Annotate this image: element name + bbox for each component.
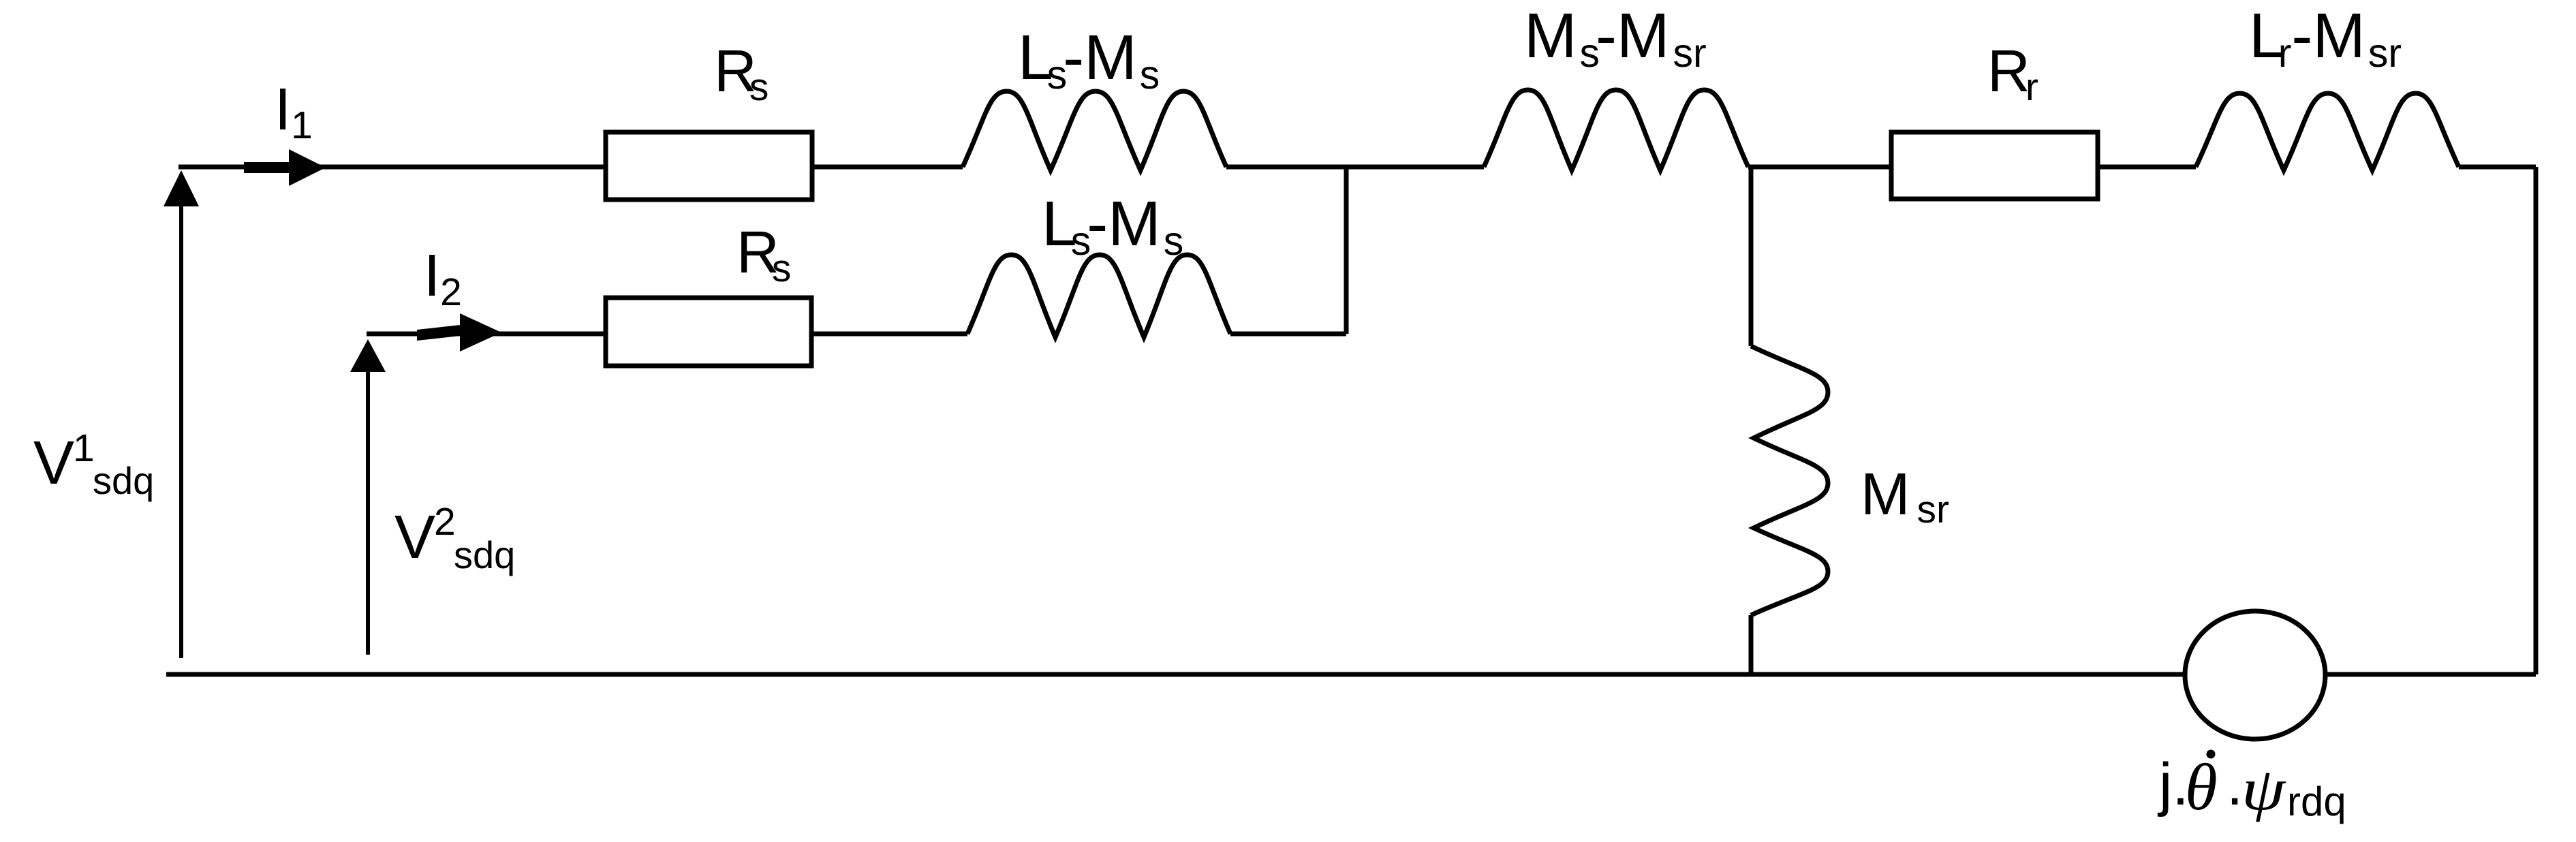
resistor Rr — [1891, 132, 2098, 199]
inductor Ls-Ms (second) — [967, 255, 1230, 337]
svg-text:Ms-Msr: Ms-Msr — [1524, 0, 1707, 76]
arrow I2 head — [460, 313, 501, 352]
arrow I2 bar — [417, 325, 460, 341]
wire Ls-Ms to Ms-Msr — [1226, 165, 1484, 170]
resistor Rs (second) — [606, 298, 811, 366]
svg-text:I1: I1 — [275, 76, 313, 147]
inductor Msr (vertical) — [1751, 346, 1828, 615]
svg-text:sdq: sdq — [93, 459, 154, 502]
svg-text:.: . — [2226, 751, 2243, 817]
svg-text:Rs: Rs — [714, 38, 769, 109]
svg-text:Rr: Rr — [1987, 38, 2038, 109]
arrow I1 head — [289, 149, 326, 186]
svg-text:Rs: Rs — [736, 219, 791, 290]
inductor Ls-Ms (top) — [963, 91, 1226, 170]
arrow V1 head — [164, 170, 199, 206]
source circle j.theta.psi — [2185, 611, 2325, 739]
svg-text:1: 1 — [73, 426, 95, 470]
wire right vertical — [2534, 167, 2539, 674]
theta dot accent — [2207, 750, 2216, 759]
inductor Lr-Msr — [2196, 93, 2459, 170]
arrow V1 shaft — [179, 206, 183, 658]
svg-text:Lr-Msr: Lr-Msr — [2249, 0, 2402, 76]
wire bottom rail left — [166, 672, 2185, 677]
svg-text:Ls-Ms: Ls-Ms — [1042, 188, 1183, 264]
resistor Rs (top) — [606, 132, 812, 200]
arrow V2 head — [350, 339, 386, 372]
svg-text:V: V — [394, 503, 435, 572]
arrow I1 bar — [244, 162, 289, 173]
wire top branch left — [179, 165, 606, 170]
wire node to Msr — [1749, 167, 1754, 346]
wire Rs to Ls-Ms (second) — [811, 332, 967, 337]
wire Lr-Msr to right corner — [2459, 165, 2536, 170]
inductor Ms-Msr — [1484, 90, 1748, 170]
svg-text:Msr: Msr — [1861, 461, 1949, 531]
wire Ms-Msr to Rr — [1748, 165, 1891, 170]
svg-text:sdq: sdq — [454, 533, 515, 576]
arrow V2 shaft — [366, 372, 370, 655]
wire junction vertical — [1344, 167, 1349, 334]
svg-text:I2: I2 — [424, 243, 462, 314]
wire Msr to bottom rail — [1749, 615, 1754, 674]
svg-text:ψ: ψ — [2241, 757, 2286, 823]
svg-text:rdq: rdq — [2287, 779, 2346, 824]
svg-text:Ls-Ms: Ls-Ms — [1018, 22, 1160, 97]
svg-text:j.: j. — [2157, 751, 2189, 817]
svg-text:θ: θ — [2185, 751, 2218, 824]
wire Rr to Lr-Msr — [2098, 165, 2196, 170]
wire second branch left — [367, 332, 606, 337]
wire Rs to Ls-Ms (top) — [812, 165, 963, 170]
svg-text:V: V — [33, 429, 74, 497]
svg-text:2: 2 — [434, 500, 456, 544]
wire Ls-Ms to junction (second) — [1230, 332, 1346, 337]
wire bottom rail right — [2325, 672, 2536, 677]
